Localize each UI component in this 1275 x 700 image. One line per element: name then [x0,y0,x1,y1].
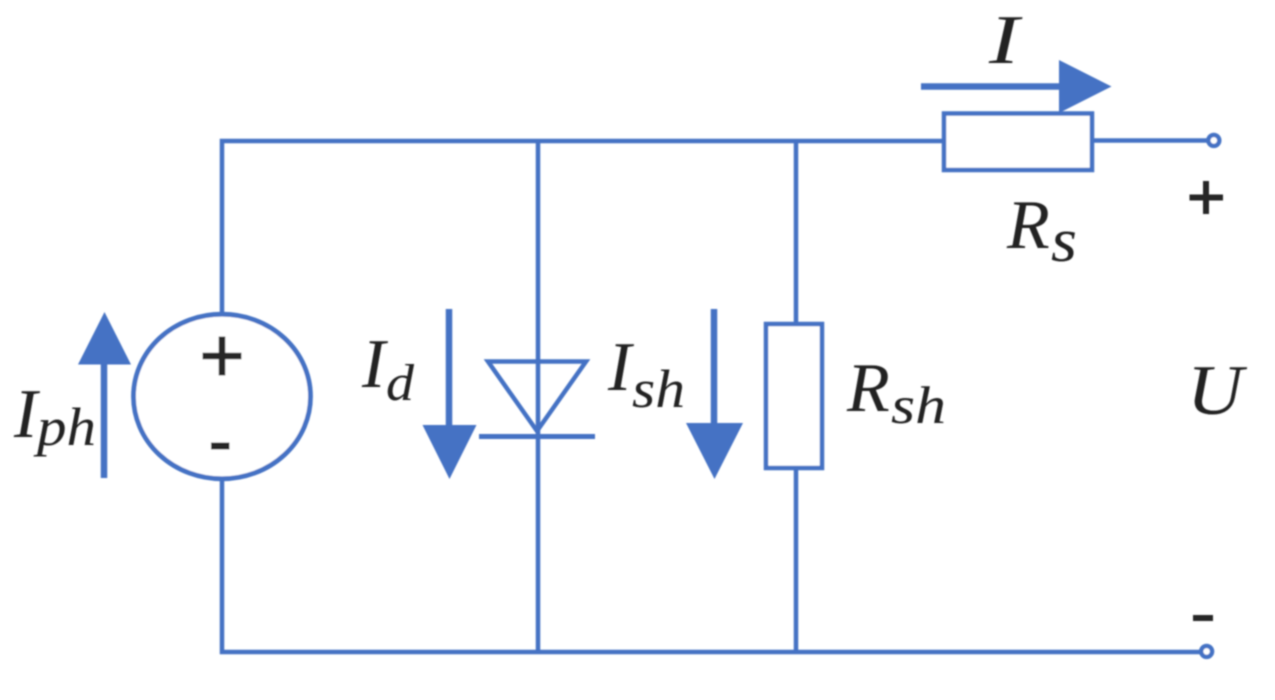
diode D1 cathode bar [479,434,595,439]
arrow Ish head [686,423,743,479]
arrow Ish shaft [711,309,718,428]
svg-text:d: d [386,355,415,412]
svg-text:I: I [361,326,389,403]
arrow Id shaft [446,309,453,430]
svg-text:I: I [988,2,1024,79]
svg-text:R: R [1006,187,1050,264]
diode D1 triangle [488,362,586,432]
wire Rsh branch vertical [794,141,799,652]
terminal node minus (bottom right) [1201,646,1212,657]
arrow Iph head [78,312,131,365]
current source plus sign [203,337,242,376]
svg-text:s: s [1051,207,1077,275]
wire bottom bus (node B: from source bottom to output minus) [222,481,1200,652]
svg-text:sh: sh [891,377,946,435]
wire top bus (node A: from source top to Rs left) [222,141,944,312]
arrow I head [1059,60,1112,113]
current source U1 circle [134,314,311,479]
resistor Rsh box [766,324,822,468]
wire diode branch vertical [536,141,541,652]
resistor Rs box [944,114,1092,171]
svg-text:U: U [1187,352,1248,430]
current source minus sign [211,443,230,450]
svg-text:I: I [607,329,635,406]
svg-text:ph: ph [33,397,96,457]
wire Rs output segment [1092,138,1207,143]
svg-text:sh: sh [632,359,685,419]
terminal minus sign label [1193,615,1213,621]
arrow Id head [423,425,477,479]
arrow Iph shaft [101,360,108,478]
terminal plus sign label [1190,181,1224,214]
svg-text:R: R [846,350,890,427]
terminal node plus (top right) [1208,135,1219,146]
arrow I shaft [921,83,1062,90]
